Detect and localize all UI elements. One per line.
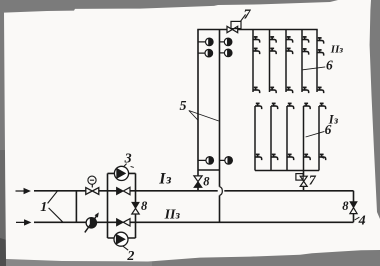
pump 3 branch — [108, 172, 136, 174]
riser 6 (I zone) no.2 — [270, 106, 272, 171]
pump 2 — [114, 232, 128, 250]
riser 6 (II zone) no.2 — [269, 30, 271, 93]
label 4 with leader — [355, 214, 366, 229]
riser 6 (II zone) no.1 — [252, 30, 254, 93]
wire: check valve 8 branch stub — [197, 170, 199, 191]
valve 7 drop pipe — [303, 171, 305, 191]
svg-text:4: 4 — [358, 214, 366, 229]
label 1 with leaders — [40, 191, 63, 222]
check valve 8 (right end) — [350, 202, 357, 214]
valve on pipe II3 (bypass) — [117, 219, 131, 226]
check valve 8 (bypass) — [132, 202, 139, 214]
svg-text:6: 6 — [326, 58, 333, 73]
pipe II3 (zone II main) — [34, 221, 354, 223]
svg-text:3: 3 — [124, 152, 132, 167]
svg-text:8: 8 — [141, 199, 148, 213]
svg-text:8: 8 — [342, 199, 349, 213]
towel-rail circles on right main riser top — [220, 38, 233, 57]
check valve 8 (left main riser) — [194, 176, 202, 188]
taps on II zone risers row 1 — [253, 37, 324, 44]
label 5 with leaders — [180, 99, 219, 121]
svg-text:2: 2 — [126, 249, 134, 264]
svg-text:7: 7 — [309, 174, 317, 189]
main riser 5 (right) — [219, 30, 221, 187]
label 6 (lower) with leader — [306, 122, 332, 137]
bypass right vertical — [135, 173, 137, 238]
temperature regulator valve with sensor — [86, 176, 99, 194]
main riser 5 (left) — [197, 30, 199, 171]
valve on pipe I3 (bypass) — [117, 187, 131, 194]
darker left column of border — [0, 150, 7, 252]
label 6 (upper) with leader — [303, 58, 333, 73]
top header pipe — [197, 29, 317, 31]
svg-text:IIз: IIз — [164, 208, 181, 223]
main riser (right) lower part — [219, 195, 221, 222]
lighter bottom band segment — [6, 259, 152, 266]
riser 6 (II zone) no.4 — [301, 30, 303, 93]
lower riser header — [255, 170, 319, 172]
svg-text:7: 7 — [244, 7, 252, 22]
pipe I3 (zone I main) — [34, 190, 354, 192]
dark bottom-left corner block — [0, 238, 8, 266]
riser 6 (I zone) no.1 — [254, 106, 256, 171]
riser hop over pipe I3 — [220, 187, 223, 196]
connector between main risers — [198, 169, 220, 171]
towel-rail circles bottom pair — [198, 157, 232, 165]
svg-text:8: 8 — [203, 175, 210, 189]
upper zone risers group — [253, 30, 319, 171]
svg-text:5: 5 — [180, 99, 187, 114]
taps on II zone risers row 2 — [253, 48, 324, 55]
riser 6 (I zone) no.4 — [303, 106, 305, 171]
riser 6 (I zone) no.5 — [318, 106, 320, 171]
svg-text:Iз: Iз — [158, 170, 172, 187]
riser 6 (II zone) no.5 — [316, 30, 318, 93]
svg-text:1: 1 — [40, 200, 47, 215]
taps on I zone risers top row — [255, 103, 326, 109]
right end riser to check valve 8 — [353, 191, 355, 223]
pump 2 branch — [108, 237, 136, 239]
riser 6 (II zone) no.3 — [285, 30, 287, 93]
inlet connector — [75, 191, 77, 222]
riser 6 (I zone) no.3 — [286, 106, 288, 171]
valve 7 on top header with actuator box — [227, 14, 246, 32]
svg-text:IIз: IIз — [330, 44, 344, 56]
valve 7 (lower) with actuator box — [296, 174, 307, 187]
bypass left vertical — [107, 173, 109, 238]
towel-rail circles on left main riser top — [198, 38, 213, 57]
small artifact dash right of I-zone riser 5 — [322, 157, 325, 158]
water meter with flow arrow — [85, 212, 99, 232]
small artifact dash near pump 3 — [131, 166, 134, 167]
taps on I zone risers row 2 — [255, 154, 326, 160]
pump 3 — [114, 164, 128, 181]
svg-text:6: 6 — [325, 122, 332, 137]
inlet arrow top — [16, 189, 30, 193]
inlet arrow bottom — [16, 220, 30, 224]
taps on II zone risers bottom row — [253, 87, 324, 93]
